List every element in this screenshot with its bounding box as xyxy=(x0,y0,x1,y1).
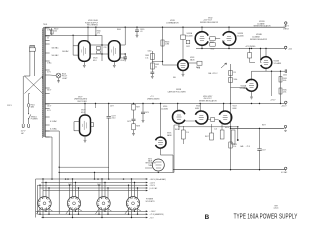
svg-text:} 6.3 V AC: } 6.3 V AC xyxy=(150,187,158,190)
svg-text:-150 V: -150 V xyxy=(281,106,287,108)
svg-text:R634: R634 xyxy=(283,78,287,80)
svg-text:1/2-6080: 1/2-6080 xyxy=(237,35,244,37)
svg-text:2.7k: 2.7k xyxy=(186,132,189,134)
svg-text:3AG: 3AG xyxy=(31,106,35,109)
svg-text:6084: 6084 xyxy=(233,108,237,110)
svg-text:+100 V: +100 V xyxy=(150,182,156,184)
svg-text:R632: R632 xyxy=(211,49,215,51)
svg-text:T601: T601 xyxy=(43,24,47,26)
svg-text:R619: R619 xyxy=(233,144,237,146)
svg-text:SOCKETS: SOCKETS xyxy=(146,201,156,203)
svg-text:C632: C632 xyxy=(186,46,190,48)
svg-text:4.7k: 4.7k xyxy=(97,33,100,35)
svg-text:R3: R3 xyxy=(234,72,236,74)
svg-text:R633: R633 xyxy=(196,67,200,69)
svg-text:5.1k: 5.1k xyxy=(233,146,236,148)
svg-text:580 VAC: 580 VAC xyxy=(52,46,60,49)
svg-text:CHECK: CHECK xyxy=(283,29,290,31)
svg-text:1.2k: 1.2k xyxy=(214,129,217,131)
svg-text:560 VAC: 560 VAC xyxy=(62,50,69,53)
svg-text:RECTIFIER: RECTIFIER xyxy=(78,101,88,103)
svg-text:R635: R635 xyxy=(283,90,287,92)
svg-text:SERIES REGULATOR: SERIES REGULATOR xyxy=(254,25,272,28)
svg-text:1.5k: 1.5k xyxy=(145,57,148,59)
svg-text:+300 V (300mA MAX): +300 V (300mA MAX) xyxy=(150,178,167,181)
svg-text:+270 V: +270 V xyxy=(270,100,276,102)
svg-text:R617: R617 xyxy=(205,136,209,138)
svg-text:POWER: POWER xyxy=(31,119,38,121)
svg-text:6X4: 6X4 xyxy=(121,60,124,62)
svg-text:1/2-6AN8: 1/2-6AN8 xyxy=(274,62,282,65)
svg-text:R662: R662 xyxy=(155,64,159,66)
svg-text:6AU6: 6AU6 xyxy=(190,58,195,61)
svg-text:.01: .01 xyxy=(140,31,143,33)
svg-text:+475 UNREG: +475 UNREG xyxy=(245,46,256,48)
svg-text:2x10: 2x10 xyxy=(112,118,116,120)
svg-text:54: 54 xyxy=(47,38,49,40)
svg-text:220k: 220k xyxy=(283,92,287,94)
svg-text:1/2-6080: 1/2-6080 xyxy=(186,35,193,37)
svg-text:R618: R618 xyxy=(225,127,229,129)
svg-text:R640: R640 xyxy=(117,29,121,31)
svg-text:6AN8: 6AN8 xyxy=(167,134,172,137)
svg-text:1.8M: 1.8M xyxy=(165,44,169,46)
svg-text:C674: C674 xyxy=(145,112,149,114)
svg-text:R661: R661 xyxy=(145,55,149,57)
svg-text:+225: +225 xyxy=(288,49,292,51)
svg-text:6.3 VAC: 6.3 VAC xyxy=(50,128,58,131)
svg-text:LIGHT: LIGHT xyxy=(62,78,68,80)
svg-text:R616: R616 xyxy=(175,129,179,131)
svg-text:1/2-6080: 1/2-6080 xyxy=(161,108,168,110)
svg-text:R620: R620 xyxy=(97,31,101,33)
svg-text:TYPE 160A POWER SUPPLY: TYPE 160A POWER SUPPLY xyxy=(234,214,298,221)
svg-text:R632: R632 xyxy=(210,42,214,44)
svg-text:+ 160 V: + 160 V xyxy=(150,211,157,213)
svg-text:C617: C617 xyxy=(262,150,266,152)
svg-text:6084: 6084 xyxy=(195,108,199,110)
svg-text:10k: 10k xyxy=(54,31,57,33)
svg-text:COMPARATOR: COMPARATOR xyxy=(166,22,179,25)
svg-text:SERIES REGULATOR: SERIES REGULATOR xyxy=(250,38,268,41)
svg-text:R677: R677 xyxy=(262,125,266,127)
svg-text:6X4: 6X4 xyxy=(93,60,96,62)
svg-text:100k: 100k xyxy=(283,80,287,82)
svg-text:C20: C20 xyxy=(104,47,107,49)
svg-text:C677: C677 xyxy=(110,106,114,108)
svg-text:SERIES REGULATOR: SERIES REGULATOR xyxy=(199,99,217,102)
svg-text:+75 V (HEATERS): +75 V (HEATERS) xyxy=(150,213,164,216)
svg-text:C640: C640 xyxy=(68,184,72,186)
svg-text:C660: C660 xyxy=(148,51,152,53)
svg-text:6X4: 6X4 xyxy=(81,112,84,114)
svg-text:SERIES REGULATOR: SERIES REGULATOR xyxy=(200,21,219,24)
svg-text:C634: C634 xyxy=(283,75,287,77)
svg-text:+500 V: +500 V xyxy=(284,25,290,27)
svg-text:180k: 180k xyxy=(234,79,238,81)
svg-text:C641: C641 xyxy=(97,184,101,186)
svg-text:SEL: SEL xyxy=(173,77,176,79)
svg-text:UNREGULATED: UNREGULATED xyxy=(147,97,160,100)
svg-text:1/2-6AN8: 1/2-6AN8 xyxy=(240,87,248,90)
svg-text:CAL -225 V: CAL -225 V xyxy=(208,72,218,75)
svg-text:RECTIFIERS: RECTIFIERS xyxy=(87,25,98,27)
svg-text:R678: R678 xyxy=(136,126,140,128)
svg-text:R677: R677 xyxy=(136,107,140,109)
svg-text:B: B xyxy=(205,214,210,221)
svg-text:R31: R31 xyxy=(222,41,225,43)
svg-text:+150 V: +150 V xyxy=(150,185,156,187)
svg-text:CATHODE FOLLOWER: CATHODE FOLLOWER xyxy=(168,90,187,93)
svg-text:4k: 4k xyxy=(155,66,157,68)
svg-text:6.3 VAC: 6.3 VAC xyxy=(281,171,288,174)
svg-text:560 VAC: 560 VAC xyxy=(52,54,60,57)
svg-text:6.3 VAC: 6.3 VAC xyxy=(50,120,58,123)
svg-text:C675: C675 xyxy=(127,121,131,123)
svg-text:6AU6: 6AU6 xyxy=(148,160,152,163)
svg-text:4-6-61: 4-6-61 xyxy=(274,208,279,210)
svg-text:115 V: 115 V xyxy=(7,105,13,107)
